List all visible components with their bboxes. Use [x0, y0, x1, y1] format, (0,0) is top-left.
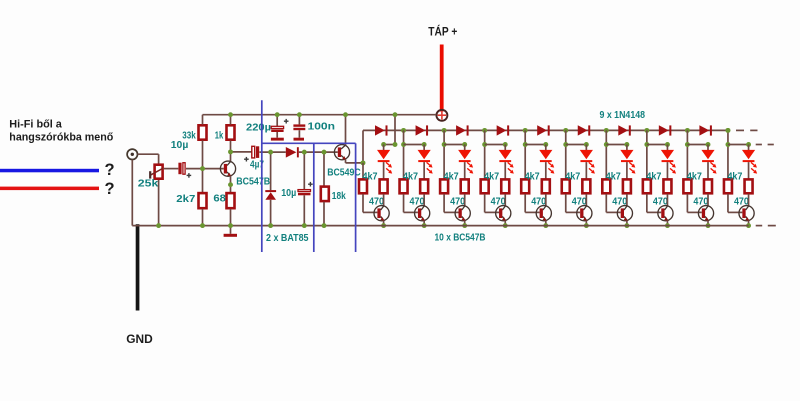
- svg-text:33k: 33k: [182, 129, 196, 141]
- transistor BC547B stage 7: [617, 206, 632, 221]
- svg-text:2k7: 2k7: [176, 193, 195, 205]
- wire emitter to ground rail stage 3: [464, 221, 466, 226]
- wire BC547B emitter to 68: [230, 176, 232, 193]
- wire emitter to ground rail stage 9: [707, 221, 709, 226]
- wire feed to LED 9: [687, 144, 708, 146]
- junction chain node 9: [726, 128, 731, 133]
- label GND: [126, 332, 153, 346]
- wire chain node to stage 4: [484, 130, 486, 178]
- capacitor 4µ7: [244, 146, 259, 161]
- wire LED 5 cathode to 470: [545, 162, 547, 179]
- wire 4k7 to base stage 4: [485, 194, 499, 212]
- svg-text:BC547B: BC547B: [236, 176, 270, 188]
- supply wire TÁP+: [440, 45, 444, 112]
- resistor 470 stage 9: [704, 179, 712, 193]
- LED 10 light arrows: [751, 162, 757, 173]
- annotation blue line right: [355, 143, 357, 252]
- junction emitter stage 1: [381, 223, 386, 228]
- transistor BC547B stage 10: [739, 206, 754, 221]
- wire 18k to ground rail: [323, 202, 325, 226]
- wire feed to LED 5: [525, 144, 546, 146]
- wire LED 2 anode stub: [423, 145, 425, 151]
- wire chain node to stage 3: [443, 130, 445, 178]
- transistor BC547B stage 2: [415, 206, 430, 221]
- resistor 68: [227, 193, 235, 208]
- wire feed to LED 4: [485, 144, 506, 146]
- pot wiper bar: [149, 171, 151, 178]
- svg-text:4k7: 4k7: [687, 171, 702, 183]
- wire emitter to ground rail stage 5: [545, 221, 547, 226]
- wire LED 9 cathode to 470: [707, 162, 709, 179]
- label BC547B: [236, 176, 270, 188]
- junction 1k rail: [228, 112, 233, 117]
- resistor 470 stage 5: [542, 179, 550, 193]
- junction emitter stage 3: [462, 223, 467, 228]
- wire feed to LED 2: [404, 144, 425, 146]
- LED 6 light arrows: [589, 162, 595, 173]
- wire LED 6 cathode to 470: [585, 162, 587, 179]
- resistor 1k: [227, 125, 235, 139]
- wire C220µ to ground symbol: [276, 132, 278, 138]
- junction feed stage 7: [604, 142, 609, 147]
- diode 1N4148 D1: [375, 125, 388, 135]
- junction ground rail C10µ: [302, 223, 307, 228]
- LED 1: [377, 150, 390, 162]
- wire emitter to ground rail stage 7: [626, 221, 628, 226]
- LED 3 light arrows: [467, 162, 473, 173]
- wire bottom ground rail: [132, 225, 748, 227]
- svg-text:4k7: 4k7: [525, 171, 540, 183]
- label 18k: [332, 190, 346, 202]
- ground symbol under 220µ: [271, 138, 284, 141]
- label 9 x 1N4148: [600, 109, 646, 121]
- diode 1N4148 D4: [497, 125, 510, 135]
- label 4k7 stage 3: [444, 171, 459, 183]
- transistor BC549C: [334, 145, 349, 160]
- wire LED 10 cathode to 470: [748, 162, 750, 179]
- LED 7 light arrows: [629, 162, 635, 173]
- wire BAT85 #2 to ground rail: [270, 200, 272, 226]
- wire feed to LED 10: [728, 144, 749, 146]
- LED 10: [742, 150, 755, 162]
- svg-text:9 x 1N4148: 9 x 1N4148: [600, 109, 646, 121]
- wire 470 to collector stage 6: [585, 194, 587, 206]
- wire C100n to ground symbol: [298, 130, 300, 138]
- wire 4k7 to base stage 10: [728, 194, 742, 212]
- ground symbol under 100n: [294, 138, 305, 141]
- potentiometer 25k: [150, 165, 163, 179]
- LED 3: [458, 150, 471, 162]
- label 4k7 stage 10: [727, 171, 742, 183]
- label 4k7 stage 8: [646, 171, 661, 183]
- wire feed to LED 6: [566, 144, 587, 146]
- resistor 470 stage 1: [380, 179, 388, 193]
- transistor BC547B: [220, 161, 235, 176]
- wire LED 3 cathode to 470: [464, 162, 466, 179]
- wire chain continuation dashes: [736, 129, 758, 131]
- label 10µ input: [171, 139, 189, 151]
- wire C10µ filter to ground rail: [303, 195, 305, 225]
- svg-text:Hi-Fi ből a: Hi-Fi ből a: [9, 119, 62, 131]
- capacitor 10µ input: [178, 163, 191, 178]
- wire LED 1 anode stub: [383, 145, 385, 151]
- wire emitter node to 4k7 stage1: [362, 163, 364, 179]
- LED 7: [620, 150, 633, 162]
- junction LED 4 anode: [503, 142, 508, 147]
- supply terminal: [436, 110, 447, 121]
- wire C10µ to node: [186, 168, 203, 170]
- resistor 4k7 stage 10: [724, 179, 732, 193]
- junction feed stage 4: [482, 142, 487, 147]
- wire feed to LED 7: [606, 144, 627, 146]
- LED 2: [418, 150, 431, 162]
- junction rail 220µ: [275, 112, 280, 117]
- LED 1 light arrows: [386, 162, 392, 173]
- resistor 4k7 stage 5: [521, 179, 529, 193]
- wire chain start column: [362, 130, 364, 163]
- junction feed stage 10: [726, 142, 731, 147]
- wire 4k7 to base stage 7: [606, 194, 620, 212]
- wire chain node to stage 5: [524, 130, 526, 178]
- label 470 stage 2: [410, 196, 425, 208]
- annotation blue line left: [261, 100, 263, 252]
- junction ground rail 2k7: [200, 223, 205, 228]
- wire 33k to node: [202, 141, 204, 169]
- label 470 stage 1: [369, 196, 384, 208]
- capacitor 10µ filter: [298, 182, 313, 195]
- junction LED 10 anode: [746, 142, 751, 147]
- label ? blue wire: [105, 161, 115, 179]
- wire emitter to ground rail stage 6: [585, 221, 587, 226]
- LED 5: [539, 150, 552, 162]
- resistor 4k7 stage 7: [602, 179, 610, 193]
- junction rail 100n: [297, 112, 302, 117]
- wire 1k to rail: [230, 115, 232, 125]
- wire LED 2 cathode to 470: [423, 162, 425, 179]
- junction feed stage 8: [644, 142, 649, 147]
- junction chain node 8: [685, 128, 690, 133]
- wire LED 8 anode stub: [666, 145, 668, 151]
- resistor 2k7: [199, 193, 207, 208]
- junction ground rail 18k: [322, 223, 327, 228]
- wire 4k7 to base stage 1: [363, 194, 377, 212]
- junction emitter stage 10: [746, 223, 751, 228]
- svg-text:GND: GND: [126, 332, 153, 346]
- resistor 4k7 stage 9: [683, 179, 691, 193]
- junction chain node 7: [644, 128, 649, 133]
- label 4k7 stage 2: [403, 171, 418, 183]
- junction collector tap: [228, 149, 233, 154]
- wire rail to C 220µ: [276, 115, 278, 127]
- svg-text:4k7: 4k7: [403, 171, 418, 183]
- wire 470 to collector stage 3: [464, 194, 466, 206]
- junction LED 6 anode: [584, 142, 589, 147]
- wire top supply rail: [203, 114, 437, 116]
- junction chain end node: [725, 128, 730, 133]
- transistor BC547B stage 9: [698, 206, 713, 221]
- junction emitter stage 8: [665, 223, 670, 228]
- junction LED 3 anode: [462, 142, 467, 147]
- wire LED 4 anode stub: [504, 145, 506, 151]
- wire rail to C 100n: [298, 115, 300, 125]
- wire chain node to stage 8: [646, 130, 648, 178]
- svg-text:220µ: 220µ: [246, 121, 271, 133]
- LED 9: [701, 150, 714, 162]
- diode 1N4148 D6: [578, 125, 591, 135]
- resistor 470 stage 7: [623, 179, 631, 193]
- resistor 470 stage 3: [461, 179, 469, 193]
- blue speaker wire: [0, 169, 99, 173]
- label 4k7 stage 5: [525, 171, 540, 183]
- junction rail stage1: [393, 112, 398, 117]
- diode BAT85 #1: [286, 147, 299, 158]
- resistor 4k7 stage 6: [562, 179, 570, 193]
- wire 4k7 to base stage 6: [566, 194, 580, 212]
- wire LED 3 anode stub: [464, 145, 466, 151]
- junction chain node 5: [563, 128, 568, 133]
- diode 1N4148 D3: [456, 125, 469, 135]
- svg-text:4k7: 4k7: [444, 171, 459, 183]
- wire LED 7 cathode to 470: [626, 162, 628, 179]
- label 470 stage 9: [693, 196, 708, 208]
- wire 4k7 to base stage 8: [647, 194, 661, 212]
- annotation blue line mid: [313, 143, 315, 252]
- wire LED 1 cathode to 470: [383, 162, 385, 179]
- wire emitter to ground rail stage 10: [748, 221, 750, 226]
- svg-text:10µ: 10µ: [281, 187, 296, 199]
- label 4k7 stage 6: [565, 171, 580, 183]
- wire feed to LED 3: [444, 144, 465, 146]
- wire LED 9 anode stub: [707, 145, 709, 151]
- label 470 stage 6: [572, 196, 587, 208]
- transistor BC547B stage 4: [496, 206, 511, 221]
- label 470 stage 5: [531, 196, 546, 208]
- wire jack to pot: [138, 154, 159, 164]
- junction feed stage 2: [401, 142, 406, 147]
- resistor 470 stage 4: [501, 179, 509, 193]
- junction chain node 3: [482, 128, 487, 133]
- wire emitter to ground rail stage 1: [383, 221, 385, 226]
- svg-text:25k: 25k: [138, 177, 159, 189]
- wire chain node to stage 2: [403, 130, 405, 178]
- svg-text:4k7: 4k7: [484, 171, 499, 183]
- wire LED 8 cathode to 470: [666, 162, 668, 179]
- junction feed stage 3: [442, 142, 447, 147]
- junction emitter stage 5: [543, 223, 548, 228]
- transistor BC547B stage 3: [455, 206, 470, 221]
- label 470 stage 4: [491, 196, 506, 208]
- diode 1N4148 D2: [416, 125, 429, 135]
- diode 1N4148 D5: [537, 125, 550, 135]
- junction LED 1 anode: [381, 142, 386, 147]
- label ? red wire: [105, 180, 115, 198]
- svg-text:?: ?: [105, 180, 115, 198]
- junction rail BC549C: [343, 112, 348, 117]
- resistor 4k7 stage 3: [440, 179, 448, 193]
- wire 4k7 to base stage 5: [525, 194, 539, 212]
- wire 33k to rail: [202, 115, 204, 125]
- junction LED 9 anode: [706, 142, 711, 147]
- resistor 4k7 stage 1: [359, 179, 367, 193]
- junction detector node c: [322, 150, 327, 155]
- svg-text:68: 68: [213, 193, 226, 205]
- LED 8: [661, 150, 674, 162]
- label 2k7: [176, 193, 195, 205]
- label 470 stage 7: [612, 196, 627, 208]
- wire BAT85 to BC549C base: [299, 151, 338, 153]
- transistor BC547B stage 1: [374, 206, 389, 221]
- wire pot to C 10µ: [164, 168, 178, 170]
- junction ground rail pot: [156, 223, 161, 228]
- svg-text:100n: 100n: [308, 121, 336, 133]
- junction emitter stage 4: [503, 223, 508, 228]
- label 4k7 stage 7: [606, 171, 621, 183]
- junction emitter stage 9: [706, 223, 711, 228]
- wire BC549C emitter to ladder: [346, 159, 364, 163]
- wire BC547B collector to C 4µ7: [231, 151, 252, 153]
- input jack: [127, 149, 137, 159]
- label 4k7 stage 4: [484, 171, 499, 183]
- wire 470 to collector stage 4: [504, 194, 506, 206]
- svg-text:1k: 1k: [215, 129, 224, 141]
- wire chain node to stage 6: [565, 130, 567, 178]
- junction chain node 1: [401, 128, 406, 133]
- resistor 4k7 stage 8: [643, 179, 651, 193]
- label 220µ: [246, 121, 271, 133]
- resistor 4k7 stage 4: [481, 179, 489, 193]
- wire 1k to BC547B collector: [230, 141, 232, 163]
- resistor 4k7 stage 2: [400, 179, 408, 193]
- ground wire GND: [136, 224, 140, 310]
- svg-text:10 x BC547B: 10 x BC547B: [435, 232, 486, 244]
- wire 470 to collector stage 5: [545, 194, 547, 206]
- label 10µ filter: [281, 187, 296, 199]
- label 470 stage 10: [734, 196, 749, 208]
- svg-text:18k: 18k: [332, 190, 346, 202]
- wire LED 4 cathode to 470: [504, 162, 506, 179]
- wire pot to ground rail: [158, 180, 160, 226]
- wire 4k7 to base stage 3: [444, 194, 458, 212]
- junction detector node b: [302, 150, 307, 155]
- label BC549C: [327, 166, 361, 178]
- label 470 stage 8: [653, 196, 668, 208]
- svg-text:4k7: 4k7: [727, 171, 742, 183]
- junction emitter node: [228, 182, 233, 187]
- wire 4k7 to base stage 9: [687, 194, 701, 212]
- junction BC549C emitter node: [361, 160, 366, 165]
- wire 68 to ground rail: [230, 209, 232, 226]
- wire diode chain rail: [363, 129, 728, 131]
- label 100n: [308, 121, 336, 133]
- svg-text:?: ?: [105, 161, 115, 179]
- junction 33k/base node: [200, 166, 205, 171]
- label 25k: [138, 177, 159, 189]
- junction feed stage 5: [523, 142, 528, 147]
- wire jack to ground rail: [131, 160, 133, 226]
- junction detector node a: [268, 150, 273, 155]
- annotation blue line top: [262, 142, 356, 144]
- wire node to C 10µ filter: [303, 152, 305, 189]
- label 68: [213, 193, 226, 205]
- resistor 470 stage 10: [745, 179, 753, 193]
- ground symbol under 68: [224, 226, 237, 237]
- svg-text:TÁP +: TÁP +: [428, 25, 457, 38]
- resistor 470 stage 6: [582, 179, 590, 193]
- capacitor 100n: [293, 124, 305, 130]
- label hangszórókba menő: [9, 132, 113, 144]
- label 4k7 stage 1: [363, 171, 378, 183]
- wire node to BC547B base: [203, 168, 224, 170]
- svg-text:4k7: 4k7: [646, 171, 661, 183]
- diode 1N4148 D9: [699, 125, 712, 135]
- resistor 18k: [321, 187, 329, 202]
- junction feed stage 6: [563, 142, 568, 147]
- wire emitter to ground rail stage 2: [423, 221, 425, 226]
- label 470 stage 3: [450, 196, 465, 208]
- svg-text:hangszórókba menő: hangszórókba menő: [9, 132, 113, 144]
- junction chain node 4: [523, 128, 528, 133]
- wire 470 to collector stage 7: [626, 194, 628, 206]
- resistor 470 stage 8: [663, 179, 671, 193]
- LED 4 light arrows: [508, 162, 514, 173]
- LED 9 light arrows: [710, 162, 716, 173]
- wire emitter to ground rail stage 8: [666, 221, 668, 226]
- wire 470 to collector stage 10: [748, 194, 750, 206]
- wire BC549C collector to rail: [345, 115, 347, 146]
- red speaker wire: [0, 187, 99, 191]
- transistor BC547B stage 8: [658, 206, 673, 221]
- label 2 x BAT85: [266, 232, 309, 244]
- svg-text:4k7: 4k7: [565, 171, 580, 183]
- diode BAT85 #2: [265, 190, 276, 200]
- wire 470 to collector stage 2: [423, 194, 425, 206]
- junction emitter stage 6: [584, 223, 589, 228]
- junction emitter stage 7: [624, 223, 629, 228]
- wire ground rail dashes: [756, 225, 776, 227]
- junction chain node 6: [604, 128, 609, 133]
- diode 1N4148 D7: [618, 125, 631, 135]
- label TÁP +: [428, 25, 457, 38]
- wire chain node to stage 10: [727, 130, 729, 178]
- junction LED1 feed corner: [393, 142, 398, 147]
- wire LED 10 anode stub: [748, 145, 750, 151]
- LED 4: [499, 150, 512, 162]
- wire LED 6 anode stub: [585, 145, 587, 151]
- transistor BC547B stage 6: [577, 206, 592, 221]
- wire rail to LED1 anode: [384, 115, 395, 145]
- svg-text:4k7: 4k7: [606, 171, 621, 183]
- wire 4k7 to base stage 2: [404, 194, 418, 212]
- wire 470 to collector stage 9: [707, 194, 709, 206]
- svg-text:4k7: 4k7: [363, 171, 378, 183]
- resistor 33k: [199, 125, 207, 139]
- LED 8 light arrows: [670, 162, 676, 173]
- junction chain node 2: [442, 128, 447, 133]
- junction LED 2 anode: [422, 142, 427, 147]
- LED 2 light arrows: [427, 162, 433, 173]
- junction feed stage 9: [685, 142, 690, 147]
- wire chain node to stage 7: [605, 130, 607, 178]
- label 10 x BC547B: [435, 232, 486, 244]
- wire 2k7 to ground rail: [202, 209, 204, 226]
- label 4k7 stage 9: [687, 171, 702, 183]
- LED 6: [580, 150, 593, 162]
- transistor BC547B stage 5: [536, 206, 551, 221]
- wire LED 7 anode stub: [626, 145, 628, 151]
- resistor 470 stage 2: [420, 179, 428, 193]
- wire feed to LED 8: [647, 144, 668, 146]
- svg-text:2 x BAT85: 2 x BAT85: [266, 232, 309, 244]
